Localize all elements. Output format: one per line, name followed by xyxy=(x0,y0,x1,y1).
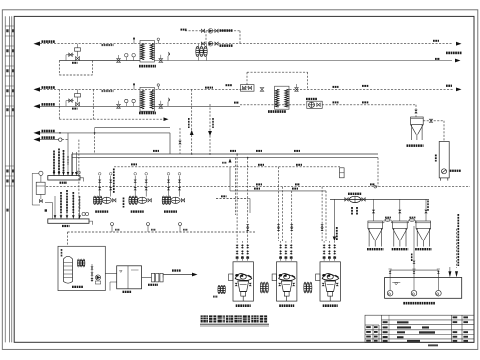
unit 3 riser stubs xyxy=(323,241,337,262)
label 软水过滤器 xyxy=(148,284,158,286)
check valve CV1 xyxy=(295,84,299,91)
wire chiller riser x=282.5 xyxy=(282,187,284,241)
deep well pump 2 impeller xyxy=(279,274,296,302)
pump group LB-3 flexible joint xyxy=(162,196,171,205)
wire drop to XL-4 xyxy=(415,105,417,117)
label 分水器 xyxy=(60,182,68,184)
DN labels above collector xyxy=(60,190,80,213)
filter group xyxy=(152,273,164,282)
gauge on L7 xyxy=(59,138,62,141)
tank pump 3 xyxy=(436,290,442,296)
wire B2 drop x=378 xyxy=(374,158,378,188)
strainer on B3 end xyxy=(340,168,345,178)
wire HX3 upper dashed loop xyxy=(247,72,308,89)
label 循环水泵XB-1 xyxy=(220,29,233,32)
wire L7 extension to riser xyxy=(62,139,68,141)
steam valve station xyxy=(241,85,255,92)
wire tank-filter xyxy=(142,277,152,279)
riser valve clusters above units xyxy=(246,224,324,231)
label 接市政蒸汽凝水 xyxy=(42,103,55,106)
small pump in plant xyxy=(95,275,100,284)
label 排污口SL-1 xyxy=(450,170,461,172)
pump LB-2 xyxy=(138,197,152,203)
left strip cell text marks xyxy=(7,30,14,212)
unit 3 side valves xyxy=(322,283,339,286)
label 电动调节阀 loop2 xyxy=(102,90,114,92)
label 旋流除砂器XL-4 xyxy=(407,144,424,147)
wire L14 drop to plant xyxy=(67,232,69,246)
node arrow right on bypass xyxy=(164,117,169,121)
valve V5 on L3 xyxy=(260,88,264,92)
valve V4 xyxy=(159,101,163,108)
cooling tower connection stubs xyxy=(199,44,207,61)
unit 2 riser stubs xyxy=(279,241,293,262)
label 旋流除砂器XL-2 xyxy=(392,248,408,250)
tank suction drops xyxy=(389,226,441,290)
wire drops to cyclones xyxy=(372,199,428,221)
labels DN on B1 xyxy=(153,150,159,152)
node arrow left L4 xyxy=(34,104,41,108)
pump LB-3 xyxy=(171,197,185,203)
pump group LB-1 flexible joint xyxy=(93,196,102,205)
collector stubs xyxy=(54,196,89,219)
flex connector blob unit2-3 xyxy=(304,282,312,293)
node arrow left chilled supply xyxy=(34,131,41,135)
left binding strip columns xyxy=(5,16,12,342)
label 软化水装置 xyxy=(72,286,83,288)
wire loop1 bypass dashed xyxy=(59,61,92,76)
node arrow municipal hot water supply (left L1) xyxy=(34,42,41,46)
wire bypass lower run xyxy=(76,118,164,120)
flex connector blob unit1-2 xyxy=(260,282,268,293)
bus junction dots xyxy=(191,153,249,158)
L14 gauge stubs xyxy=(111,223,189,233)
label DN125 on L1 right xyxy=(433,40,439,42)
wire hot-water return main L2 xyxy=(59,60,452,62)
valve stack in plant xyxy=(91,264,94,282)
wire upper chilled branch y=127.7 xyxy=(95,128,170,133)
node arrow left chilled return xyxy=(34,137,41,141)
label 接空调冷冻供水 xyxy=(42,130,55,133)
plate heat exchanger PHE-1 xyxy=(140,41,154,63)
node arrow cooling tower return (right L1) xyxy=(456,42,462,46)
reservoir tank xyxy=(385,278,462,299)
vertical DN labels near pump group 1 xyxy=(113,169,124,208)
label 冷冻水泵LB-2 xyxy=(131,210,144,212)
circulating pump XB-1 xyxy=(201,29,218,34)
label 接补水点 xyxy=(172,269,181,271)
dosing pump hatched xyxy=(77,259,85,267)
wire chiller riser x=237.1 xyxy=(236,154,238,241)
unit 1 riser stubs xyxy=(236,241,250,262)
pump group 1 risers xyxy=(98,173,112,197)
wire chiller riser x=278.5 xyxy=(278,167,280,241)
junction node on L6 xyxy=(94,132,96,154)
label DN vertical at cyclone3 drop xyxy=(427,201,429,211)
label on condensate stub xyxy=(221,195,227,197)
wire chiller riser x=247.7 xyxy=(247,158,249,241)
motorized control valve M1 xyxy=(66,44,81,61)
label 接市政热水供水 xyxy=(42,40,55,43)
label DN100 vertical xyxy=(411,254,413,262)
pump group LB-2 flexible joint xyxy=(129,196,138,205)
riser DN labels xyxy=(188,118,214,128)
unit 3 side flange xyxy=(316,274,320,281)
cyclone separator XL-1 xyxy=(368,221,383,247)
wire chilled supply L6 xyxy=(39,133,170,154)
label at L0 left end xyxy=(181,29,187,31)
label DN125 on L3 xyxy=(205,87,213,89)
tank top header xyxy=(390,269,438,271)
pressure make-up device xyxy=(32,171,45,205)
sand filter column SL-1 xyxy=(439,142,449,181)
label DN on L4 xyxy=(234,102,239,104)
wire condensate L14 y=232 xyxy=(68,231,256,233)
deep well pump 3 impeller xyxy=(322,274,339,302)
connector blob near well pump xyxy=(218,285,226,293)
cyclone separator XL-2 xyxy=(393,221,408,247)
wire riser x=68 L6 to distributor xyxy=(67,133,69,152)
wire plant-tank xyxy=(105,273,116,275)
wire XL-4 to column xyxy=(423,121,444,142)
water level mark xyxy=(392,283,400,285)
label 蒸汽 xyxy=(446,85,452,87)
gauge G2 xyxy=(132,99,135,106)
thermometer T2 xyxy=(125,99,128,106)
wire collector drop dashed xyxy=(78,140,80,219)
distributor stubs xyxy=(53,152,80,176)
vertical DN labels under processor xyxy=(351,207,358,215)
wire bus B2 y=157.6 xyxy=(72,157,378,159)
riser down arrow x=210 xyxy=(208,104,212,154)
pump group 3 risers xyxy=(167,173,181,197)
labels DN on B4 xyxy=(256,183,262,185)
labels DN on B3 xyxy=(131,163,137,165)
label 接市政热水回水 xyxy=(42,86,55,89)
cyclone separator XL-4 xyxy=(411,117,424,140)
valve pair on XL4-column wire xyxy=(429,119,432,122)
wire pump branch upper L0 xyxy=(185,30,240,32)
unit 2 side flange xyxy=(272,274,276,281)
wire condensate stub y=198.5 xyxy=(216,199,250,214)
wire heating return main L4 xyxy=(40,105,416,107)
unit 2 side valves xyxy=(278,283,295,286)
deep well pump 1 impeller xyxy=(235,274,252,302)
title text 制冷换热系统流程图 (drawn as glyph blobs) xyxy=(200,315,269,326)
node arrow cooling tower supply (right L2) xyxy=(455,59,461,63)
water treatment plant box xyxy=(58,246,105,290)
unit 1 side flange xyxy=(229,274,233,281)
deep well pump unit 2 casing xyxy=(277,262,297,301)
valve V1 on L2 xyxy=(117,55,121,62)
wire riser x=230 to B5 xyxy=(229,167,231,191)
wire hot-water supply main L1 xyxy=(40,43,453,45)
riser x=180 with valve xyxy=(178,128,181,154)
label 旋流除砂器XL-3 xyxy=(415,248,432,250)
label 接空调冷冻回水 xyxy=(42,136,55,139)
valve V3 xyxy=(117,101,121,108)
vent stubs on L1 near PHE-1 xyxy=(133,38,159,44)
plate heat exchanger PHE-2 xyxy=(140,87,154,111)
wire distributor feed x=71.8 xyxy=(71,154,73,176)
label under M1 xyxy=(72,62,78,64)
label DN on L2 right xyxy=(435,58,440,60)
gauge G1 xyxy=(132,54,135,61)
label 旋流除砂器XL-1 xyxy=(367,248,384,250)
label 深井泵1-1 xyxy=(236,304,251,307)
junction node on L6 left xyxy=(59,132,61,134)
label vertical in plant box xyxy=(61,249,63,257)
softener tank xyxy=(64,256,73,283)
label 冷冻水泵LB-3 xyxy=(164,210,177,212)
label DN70 xyxy=(213,296,218,298)
wire tank lower stub xyxy=(110,282,117,291)
wire cyclone header y=199.4 xyxy=(330,198,429,200)
label 板式换热器PHE-1 xyxy=(139,65,156,68)
wire B5 y=190.9 xyxy=(230,190,326,192)
wire chiller riser x=326 xyxy=(325,191,327,241)
wire drop x=235.5 xyxy=(235,158,237,215)
label 软化水箱 xyxy=(123,291,132,293)
label 板式换热器PHE-2 xyxy=(139,112,156,115)
node arrow make-up supply xyxy=(192,273,198,277)
wire make-up long dashed B4 y=186.7 xyxy=(46,186,470,188)
label 全程水处理器 xyxy=(348,193,361,195)
labels DN on L3/L4 xyxy=(333,86,339,88)
wire filter-arrow xyxy=(163,275,192,278)
deep well pump unit 1 casing xyxy=(233,262,253,301)
softened water tank xyxy=(117,266,142,289)
label 冷冻水泵LB-1 xyxy=(95,210,108,212)
plate heat exchanger PHE-3 xyxy=(275,86,289,109)
inter-cyclone pipes xyxy=(383,217,417,223)
DN labels above distributor xyxy=(53,149,69,173)
valve V6 above XL-4 xyxy=(414,110,417,113)
label 深井泵1-2 xyxy=(279,304,294,307)
wire header left drop xyxy=(333,199,336,241)
title block table xyxy=(365,315,474,342)
safety valve SV1 xyxy=(168,52,170,61)
label 自来水补水管 vertical xyxy=(457,214,459,266)
wire heating supply main L3 xyxy=(40,88,453,90)
label 集水器 xyxy=(62,225,70,227)
label 接冷却塔回水 xyxy=(446,52,462,55)
tank pump 1 xyxy=(387,290,393,296)
pump group 2 risers xyxy=(134,173,148,197)
riser up arrow x=191.7 xyxy=(190,89,194,154)
wire chiller riser x=291.7 xyxy=(291,191,293,241)
wire chilled bus B1 y=154 xyxy=(72,153,378,155)
wire chilled return stub L7 xyxy=(39,139,59,141)
hot water circulating pump RB-1 xyxy=(307,101,322,108)
motorized control valve M2 xyxy=(66,89,81,106)
collector left inlet xyxy=(45,203,53,219)
water processor xyxy=(345,196,365,202)
label 热水循环泵 xyxy=(306,98,317,100)
label 深井泵1-3 xyxy=(323,304,338,307)
label 排污 vertical xyxy=(336,227,338,240)
cyclone separator XL-3 xyxy=(416,221,431,247)
unit 1 side valves xyxy=(235,283,252,286)
node arrow left L3 xyxy=(34,87,41,91)
node arrow right L3 steam xyxy=(456,88,462,92)
label 循环水泵XB-2 xyxy=(220,44,233,47)
pump LB-1 xyxy=(102,197,116,203)
label 砂滤器 vertical xyxy=(435,155,437,162)
small up arrow + label on B2 xyxy=(222,159,232,164)
wire chiller riser x=322.1 xyxy=(321,187,323,241)
labels DN on B5 xyxy=(254,188,260,190)
left strip cell dividers xyxy=(5,26,14,186)
city water make-up dashed xyxy=(448,229,458,278)
wire bus B3 y=166.8 xyxy=(114,166,340,168)
label 室外消防水池 xyxy=(403,302,435,305)
valve V2 xyxy=(159,55,163,63)
water distributor 分水器 xyxy=(48,176,84,182)
wire loop2 bypass dashed xyxy=(59,89,93,119)
wire risers L0-L1 xyxy=(206,31,240,44)
label 电动调节阀 xyxy=(102,44,114,46)
vent stubs on L3 near PHE-2 xyxy=(133,83,159,89)
water collector 集水器 xyxy=(48,219,93,225)
label DN on L3 right xyxy=(226,84,232,86)
tank pump 2 xyxy=(411,290,417,296)
circulating pump XB-2 xyxy=(201,41,218,46)
title block text marks xyxy=(366,316,468,346)
safety valve SV2 xyxy=(168,97,170,106)
thermometer T1 xyxy=(125,54,128,61)
deep well pump unit 3 casing xyxy=(320,262,340,301)
label 板式换热器PHE-3 xyxy=(268,110,286,113)
label under M2 xyxy=(72,108,78,110)
cooling tower cells xyxy=(196,46,207,56)
